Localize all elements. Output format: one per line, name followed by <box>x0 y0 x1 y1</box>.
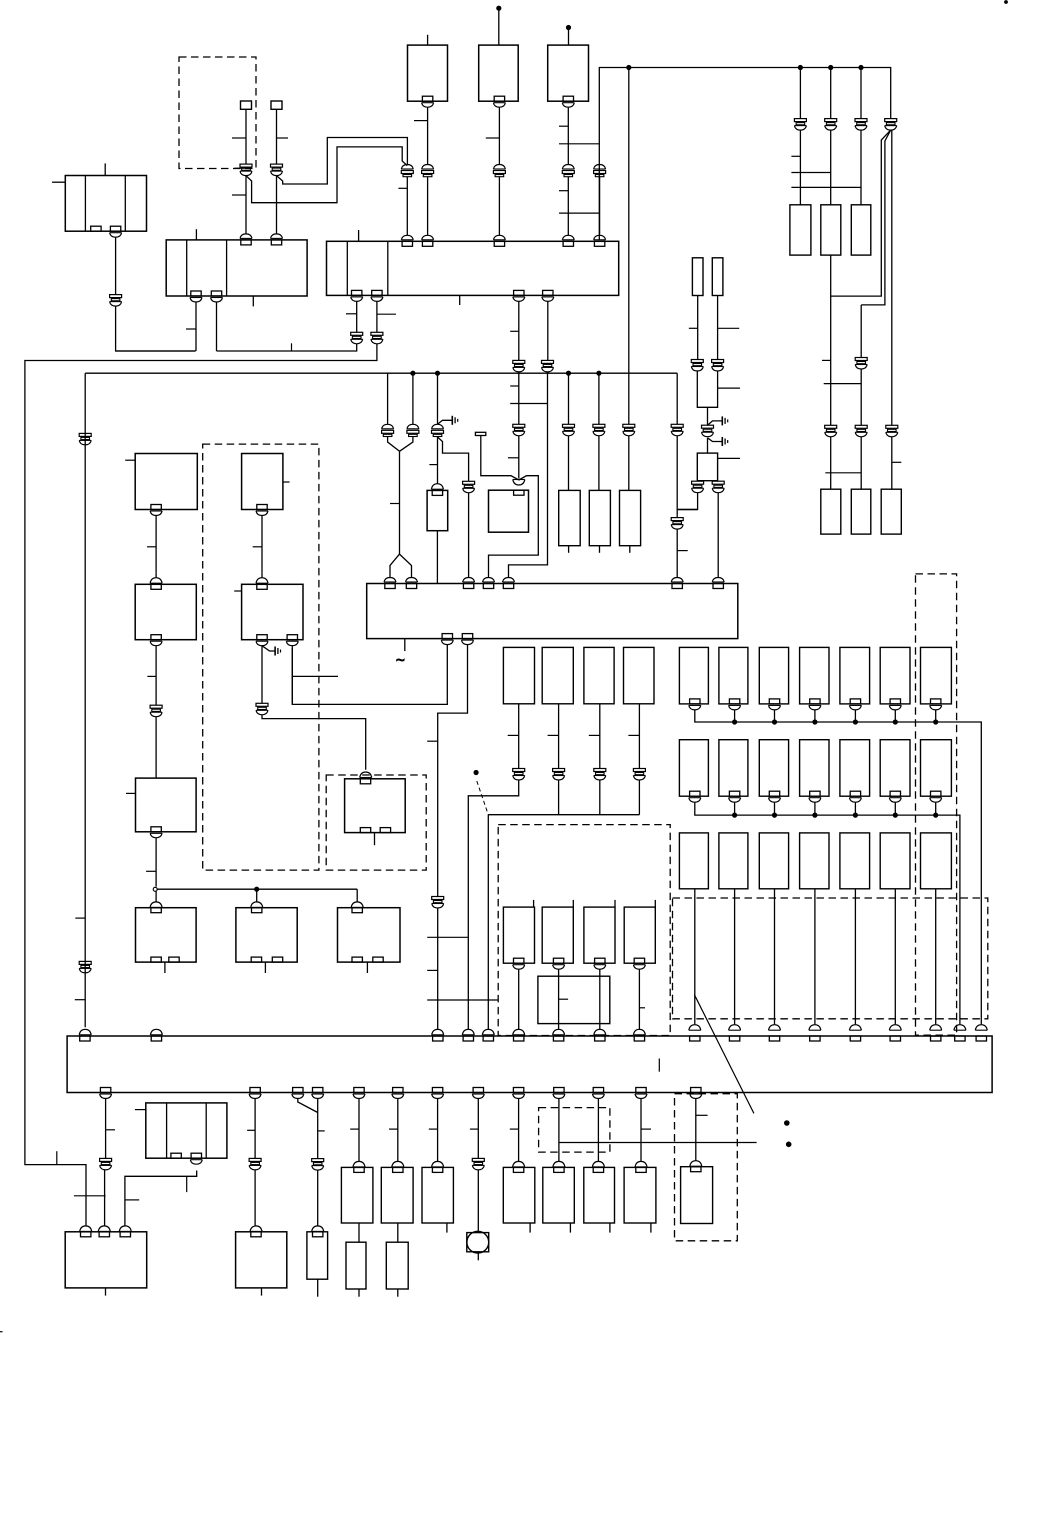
tick on wire RL2 <box>548 734 559 736</box>
dome BB 518 <box>513 1029 525 1035</box>
wire BB359 down <box>358 1099 360 1162</box>
pin L4 bottom 292 <box>287 635 297 640</box>
wire L1 down <box>155 516 157 573</box>
wire row2 pin <box>734 802 736 815</box>
wire RL1 down <box>518 704 520 769</box>
wire 861 down <box>860 305 862 358</box>
pin DL1 bottom <box>514 958 524 963</box>
wire BB695 down <box>695 1099 697 1161</box>
connector splice 890 <box>885 119 897 122</box>
connector on wire 861 <box>855 119 867 122</box>
box M11 <box>624 1167 656 1223</box>
wire grid r3c5 down <box>854 889 856 1025</box>
tick on wire 891 <box>892 461 902 463</box>
pin B3 bottom 377 <box>372 290 382 295</box>
pin DL2 bottom <box>553 958 563 963</box>
tick on DL4 wire <box>639 1007 645 1009</box>
dome onto M3 <box>250 1226 262 1232</box>
junction dot 598 bus2 <box>597 371 601 375</box>
tick L2 right <box>283 481 290 483</box>
box resistor box RR1 <box>821 489 841 534</box>
connector on wire 377 <box>371 332 383 335</box>
left bus 85 vertical <box>84 373 86 1027</box>
box M1 <box>146 1103 227 1158</box>
pin grid r1c2 <box>729 699 739 704</box>
box grid r2c2 <box>719 740 748 797</box>
junction dot row1 bus <box>893 720 897 724</box>
connector on wire 427 <box>422 165 434 170</box>
pin CB top <box>514 490 524 495</box>
connector on 437 low <box>432 897 444 900</box>
wire 276 to B2 <box>276 176 278 235</box>
tick on wire 356 <box>346 313 357 315</box>
connector 2-in on wire 407 <box>401 165 413 170</box>
DL2 top stub <box>572 900 574 907</box>
tick inside Dmid <box>559 998 569 1000</box>
pin DL3 bottom <box>595 958 605 963</box>
wire Rb left down <box>697 480 699 483</box>
wire Lsmall to B5 <box>436 531 438 584</box>
junction bar 519-547 y403 <box>510 403 547 405</box>
wire BB478 down <box>477 1099 479 1159</box>
wire DL3 to BB <box>599 969 601 1030</box>
box M12 <box>681 1167 713 1224</box>
box grid r1c2 <box>719 647 748 704</box>
tick on wire 246 <box>232 137 246 139</box>
ground lead G4 <box>262 646 275 651</box>
wire grid r3c2 down <box>734 889 736 1025</box>
pin B5 top 677 <box>672 584 682 589</box>
dome onto M5 <box>353 1161 365 1167</box>
tick Rb right <box>718 457 740 459</box>
pin grid r2c5 <box>850 791 860 796</box>
box Dmid <box>538 976 610 1023</box>
M9 bottom stub <box>569 1223 571 1233</box>
X node right branch <box>489 476 539 578</box>
crossbar 74-105 <box>74 1195 106 1197</box>
wire 518 route <box>468 780 518 1030</box>
connector on 262 <box>256 703 268 706</box>
tick on wire 800 <box>791 155 800 157</box>
connector on wire 276 <box>271 164 283 167</box>
wire BB297 diag <box>298 1099 318 1113</box>
box grid r3c2 <box>719 833 748 889</box>
wire 639 down <box>638 780 640 815</box>
pin M1 bottom 196 <box>191 1153 201 1158</box>
box fuse F1 <box>790 205 811 255</box>
box grid r3c5 <box>840 833 870 889</box>
pin L8 top <box>252 908 262 913</box>
splice wire 881 <box>831 130 891 296</box>
ground lead G2 <box>708 421 723 425</box>
dome r3c3 at BB <box>769 1025 781 1031</box>
connector on 568 <box>563 424 575 427</box>
wire drop 412 <box>412 373 414 424</box>
splice wire 884 <box>861 130 891 305</box>
pin BB top 488 <box>483 1036 493 1041</box>
pin L6 bottom 365 <box>360 828 370 833</box>
junction dot 568 bus2 <box>566 371 570 375</box>
dome onto L3 <box>150 578 162 584</box>
tick on 518 <box>510 1128 519 1130</box>
box BB <box>67 1036 992 1093</box>
wire 830 to box <box>830 437 832 489</box>
wire M5 to sub <box>358 1223 360 1242</box>
tick on wire 262 <box>253 546 262 548</box>
pin B5 top 508 <box>503 584 513 589</box>
connector on 598 <box>593 424 605 427</box>
DL1 top stub <box>533 900 535 907</box>
crossbar 830-861 <box>824 383 862 385</box>
tick on 397 <box>389 1128 398 1130</box>
connector on wire 800 <box>794 119 806 122</box>
wire 598 to box <box>598 436 600 491</box>
ground symbol G2 <box>721 416 723 425</box>
connector on 697 lower <box>692 481 704 484</box>
pin B2 bottom 216 <box>211 291 221 296</box>
wire 468 to B5 <box>468 493 470 578</box>
connector on RL2 wire <box>553 769 565 772</box>
wire above B4c <box>568 30 570 46</box>
connector on 105 <box>100 1158 112 1161</box>
dome X node <box>513 480 525 486</box>
connector on wire 861 <box>855 358 867 361</box>
wire W_A zigzag <box>246 147 407 203</box>
wire drop 387 <box>387 373 389 424</box>
wire 568 to box <box>568 436 570 491</box>
tick on wire RL4 <box>628 734 639 736</box>
M11 bottom stub <box>650 1223 652 1233</box>
wire 478 to lamp <box>477 1170 479 1233</box>
pin B3 top 427 <box>422 241 432 246</box>
box L3 <box>135 584 196 639</box>
wire 437 diag to 442 <box>438 437 469 481</box>
dome onto M2 125 <box>119 1226 131 1232</box>
box RL1 <box>503 647 534 703</box>
tick on wire 519 low <box>508 457 519 459</box>
RB1 stub <box>568 546 570 553</box>
wire M1-196 route <box>125 1171 197 1227</box>
tick on wire 568 lower <box>559 190 568 192</box>
wire 891 to box <box>891 437 893 489</box>
junction dot bus 800 <box>798 65 802 69</box>
tick on wire RL1 <box>508 734 519 736</box>
wire connector437 to Lsmall <box>437 437 439 484</box>
tick on wire 717 <box>718 327 740 329</box>
callout dot D4 <box>474 770 478 774</box>
L8 bottom stub <box>264 962 266 973</box>
connector row 830 <box>825 425 837 428</box>
dome r3c5 at BB <box>849 1025 861 1031</box>
junction dot row2 bus <box>772 813 776 817</box>
wire 548 down <box>547 301 549 360</box>
box DL2 <box>542 907 573 963</box>
left margin mark <box>0 1331 3 1333</box>
pin grid r2c4 <box>810 791 820 796</box>
pin B4b with dome <box>494 96 504 101</box>
pin M2 top 85 <box>81 1232 91 1237</box>
pin BB bottom 255 <box>250 1088 260 1093</box>
junction dot row2 bus <box>853 813 857 817</box>
wire 861 to box <box>860 437 862 489</box>
wire row1 pin <box>854 710 856 722</box>
junction dot 437 <box>435 371 439 375</box>
wire 861 down <box>860 68 862 119</box>
junction dot row1 bus <box>934 720 938 724</box>
BB internal tick <box>658 1059 660 1072</box>
wire B5 447 route <box>292 645 447 705</box>
connector on 677 upper <box>671 424 683 427</box>
pin B3 bottom 356 <box>352 290 362 295</box>
dashed box D7 <box>539 1108 610 1153</box>
wire 599 to B3 <box>599 177 601 235</box>
pin BB top 774 <box>769 1036 779 1041</box>
pin M2 top 125 <box>120 1232 130 1237</box>
tick on bus 85 y999 <box>75 999 85 1001</box>
wire into B1 left <box>52 181 65 183</box>
wire L3 down <box>155 646 157 706</box>
dome onto M9 <box>553 1161 565 1167</box>
box B3 <box>327 241 619 295</box>
box B1 <box>65 176 146 232</box>
connector on 412 <box>407 424 419 429</box>
box grid r2c6 <box>880 740 910 797</box>
box RL3 <box>584 647 614 703</box>
pin B4c with dome <box>563 96 573 101</box>
box B1 internal dividers <box>84 176 86 232</box>
connector row 861 <box>855 425 867 428</box>
wire 800 down <box>799 68 801 119</box>
pin L6 top <box>360 779 370 784</box>
box M6 <box>381 1167 413 1223</box>
wire T2 down <box>276 109 278 164</box>
wire B1 pin2 down <box>115 237 117 294</box>
wire 519 down <box>518 301 520 360</box>
pin L3 top <box>151 584 161 589</box>
DL4 top stub <box>654 900 656 907</box>
pin B3 bottom 548 <box>543 290 553 295</box>
tick on wire 276 <box>277 137 289 139</box>
dome r3c7 at BB <box>930 1025 942 1031</box>
L6 bottom stub <box>374 833 376 846</box>
box M10 <box>584 1167 615 1223</box>
terminal square T2 <box>271 101 282 109</box>
box B4c <box>548 45 589 101</box>
connector on 437 <box>432 424 444 429</box>
pin grid r1c6 <box>890 699 900 704</box>
tick M1 left <box>135 1109 146 1111</box>
crossbar 800-830 <box>791 172 830 174</box>
pin grid r1c7 <box>931 699 941 704</box>
dashed box D8 <box>675 1094 738 1241</box>
junction dot row2 bus <box>934 813 938 817</box>
dome BB 639 <box>633 1029 645 1035</box>
box DL4 <box>624 907 655 963</box>
wire grid r3c3 down <box>774 889 776 1025</box>
box M5b <box>346 1242 366 1289</box>
pin BB top 814 <box>810 1036 820 1041</box>
pin L8 bottom 277 <box>272 957 282 962</box>
pin BB top 981 <box>976 1036 986 1041</box>
crossbar 568-599 <box>559 143 600 145</box>
wire grid r3c1 down <box>694 889 696 1025</box>
box RB1 <box>559 490 581 545</box>
wire drop 437 <box>437 373 439 424</box>
dome onto L6 <box>360 772 372 778</box>
pin grid r2c7 <box>931 791 941 796</box>
bullet dot 2 <box>786 1142 791 1147</box>
wire grid r3c4 down <box>814 889 816 1025</box>
pin BB bottom 359 <box>354 1088 364 1093</box>
box grid r1c6 <box>880 647 910 704</box>
dome 981 at BB <box>975 1025 987 1031</box>
terminal square T1 <box>241 101 252 109</box>
tick on wire 697 <box>689 327 698 329</box>
box grid r3c1 <box>679 833 708 889</box>
pin B5 top 488 <box>483 584 493 589</box>
tick on 641 <box>641 1128 651 1130</box>
crossbar y1000 <box>427 999 498 1001</box>
pin B5 top 390 <box>385 584 395 589</box>
pin BB top 855 <box>850 1036 860 1041</box>
wire 830 below fuse <box>830 255 832 425</box>
wire 519 to X node <box>518 436 520 479</box>
dome onto M6 <box>392 1161 404 1167</box>
junction dot row1 bus <box>853 720 857 724</box>
wire Ra center down <box>707 407 709 425</box>
top power bus <box>599 68 890 240</box>
splice wire 891 <box>891 130 893 425</box>
connector row 891 <box>886 425 898 428</box>
wire row2 pin <box>894 802 896 815</box>
wire B3 356 down <box>356 301 358 332</box>
wire row2 pin <box>774 802 776 815</box>
wire 115 to junction <box>116 306 196 351</box>
wire DL2 to BB <box>558 969 560 1030</box>
tick on wire 437b <box>429 464 437 466</box>
pin grid r2c2 <box>729 791 739 796</box>
net line y351 left <box>116 350 196 352</box>
box CB <box>489 490 529 532</box>
wire 697 down <box>697 296 699 360</box>
pin BB top 895 <box>890 1036 900 1041</box>
pin BB top 558 <box>553 1036 563 1041</box>
wire 707 to Rb <box>707 438 709 453</box>
dome r3c2 at BB <box>729 1025 741 1031</box>
B3 bottom stub <box>459 295 461 305</box>
wire 630 down <box>628 373 630 424</box>
pin grid r1c1 <box>690 699 700 704</box>
crossbar 800-861 <box>791 186 861 188</box>
wire row2 pin <box>854 802 856 815</box>
wire 628 down to bus2 <box>628 68 630 374</box>
connector on 677 lower <box>671 518 683 521</box>
pin BB top 84 <box>80 1036 90 1041</box>
tick on wire 568 <box>559 125 568 127</box>
wire 427 to B3 <box>427 177 429 235</box>
dome onto L4 <box>256 578 268 584</box>
wire RL3 down <box>599 704 601 769</box>
connector on 156 <box>150 705 162 708</box>
wire 156 to L5 <box>155 717 157 778</box>
box grid r3c6 <box>880 833 910 889</box>
box grid r1c5 <box>840 647 870 704</box>
pin M5 top <box>354 1167 364 1172</box>
pin BB top 156 <box>151 1036 161 1041</box>
dome 959 at BB <box>954 1025 966 1031</box>
pin BB top 639 <box>634 1036 644 1041</box>
dashed box D4 <box>498 825 670 1036</box>
connector on RL3 wire <box>594 769 606 772</box>
box M2 <box>65 1232 147 1288</box>
pin BB top 959 <box>955 1036 965 1041</box>
pin BB top 734 <box>729 1036 739 1041</box>
crossbar 830-861 lower <box>825 472 861 474</box>
tick crossbar 292 <box>292 675 338 677</box>
tick crossbar 427-468 <box>427 936 468 938</box>
tick on 124 <box>125 1199 139 1201</box>
ground symbol G1 <box>451 416 453 425</box>
connector on wire 356 <box>351 332 363 335</box>
wire 499 to B3 <box>498 177 500 235</box>
tick on wire 377 <box>377 313 396 315</box>
dome onto M2 85 <box>80 1226 92 1232</box>
box DL1 <box>503 907 534 963</box>
box B2 <box>166 240 307 296</box>
pin B2 top 276 <box>271 240 281 245</box>
wire BB255 down <box>254 1099 256 1159</box>
tick at connector 246 <box>234 167 252 169</box>
wire B2 pin216 down <box>216 302 218 351</box>
wire 488 down <box>487 815 489 1030</box>
speck top right <box>1005 1 1008 4</box>
box L8 <box>236 908 297 962</box>
wire row1 pin <box>734 710 736 722</box>
dome onto M8 <box>513 1161 525 1167</box>
tick on 695 <box>696 1114 708 1116</box>
pin B5 bottom 467 <box>462 634 472 639</box>
lamp bottom stub <box>477 1252 479 1261</box>
box L7 <box>136 908 197 962</box>
tick on 105 <box>106 1129 115 1131</box>
pin BB top 694 <box>690 1036 700 1041</box>
box TN1 <box>692 258 703 296</box>
net line y890 <box>157 888 357 890</box>
box L4 <box>242 584 303 639</box>
pin M10 top <box>593 1167 603 1172</box>
box grid r3c7 <box>921 833 952 889</box>
connector on bus 85 lower <box>79 961 91 964</box>
dashed box D2 <box>203 444 319 870</box>
pin L2 bottom <box>257 505 267 510</box>
bullet dot 1 <box>785 1121 790 1126</box>
RB2 stub <box>599 546 601 553</box>
pin grid r1c4 <box>810 699 820 704</box>
wire 677 to B5 <box>676 529 678 578</box>
dome onto M10 <box>592 1161 604 1167</box>
pin L6 bottom 385 <box>380 828 390 833</box>
tick on wire 407 <box>398 187 407 189</box>
tick on wire 196 <box>186 328 196 330</box>
tick stub near bus corner <box>56 1151 58 1164</box>
pin BB bottom 558 <box>554 1088 564 1093</box>
dome r3c6 at BB <box>889 1025 901 1031</box>
connector on 519 lower <box>513 424 525 427</box>
B3 internal dividers <box>346 241 348 295</box>
pin BB bottom 478 <box>473 1088 483 1093</box>
dome BB 437 <box>432 1029 444 1035</box>
wire 717 down <box>717 296 719 360</box>
